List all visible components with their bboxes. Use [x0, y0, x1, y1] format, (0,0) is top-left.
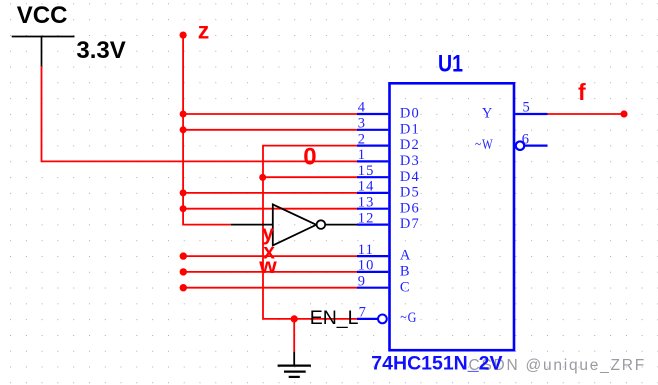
svg-text:f: f [578, 79, 586, 105]
svg-text:EN_L: EN_L [310, 307, 359, 329]
wire VCC to pin1 D3 [42, 66, 358, 161]
wire D4 from net 0 [263, 176, 357, 178]
svg-text:U1: U1 [438, 51, 463, 78]
endpoint dot wire A [180, 252, 187, 259]
svg-text:D3: D3 [400, 153, 420, 169]
junction z-D1 [180, 126, 187, 133]
node z endpoint dot [180, 31, 187, 38]
wire C [183, 287, 357, 289]
pin 10 stub B [357, 271, 388, 273]
pin 9 stub C [357, 287, 388, 289]
junction z-D0 [180, 111, 187, 118]
svg-text:~W: ~W [475, 137, 494, 153]
wire B [183, 271, 357, 273]
pin 4 stub D0 [357, 113, 388, 115]
svg-text:12: 12 [358, 210, 375, 226]
svg-text:D7: D7 [400, 216, 420, 232]
svg-text:11: 11 [358, 242, 374, 258]
wire inverter input (black) [231, 224, 273, 226]
pin 1 stub D3 [357, 160, 388, 162]
svg-text:15: 15 [358, 163, 375, 179]
wire net z vertical [183, 35, 231, 225]
pin 14 stub D5 [357, 192, 388, 194]
pin 6 stub ~W [524, 145, 548, 147]
wire inverter output to pin12 D7 (black) [325, 224, 357, 226]
svg-text:0: 0 [303, 143, 316, 170]
endpoint dot wire C [180, 284, 187, 291]
svg-text:D6: D6 [400, 200, 420, 216]
pin 5 stub Y [515, 113, 547, 115]
pin 12 stub D7 [357, 224, 388, 226]
svg-text:~G: ~G [400, 310, 417, 326]
pin 2 stub D2 [357, 145, 388, 147]
junction EN_L-ground [291, 315, 298, 322]
ground [278, 352, 311, 377]
svg-text:9: 9 [358, 273, 366, 289]
svg-text:7: 7 [359, 305, 367, 321]
svg-text:D5: D5 [400, 185, 420, 201]
wire A [183, 255, 357, 257]
pin 3 stub D1 [357, 129, 388, 131]
svg-text:2: 2 [358, 131, 366, 147]
svg-text:4: 4 [358, 100, 366, 116]
svg-text:1: 1 [358, 147, 366, 163]
svg-text:VCC: VCC [17, 2, 68, 29]
svg-text:3: 3 [358, 116, 366, 132]
junction 0-D4 [259, 174, 266, 181]
svg-text:D1: D1 [400, 121, 420, 137]
wire D5 [183, 192, 357, 194]
svg-text:Y: Y [482, 106, 494, 122]
svg-text:w: w [258, 255, 277, 278]
svg-text:B: B [400, 264, 411, 280]
svg-text:3.3V: 3.3V [76, 37, 125, 64]
svg-text:13: 13 [358, 194, 375, 210]
wire to ground (red part) [293, 319, 295, 352]
pin 7 stub ~G [357, 318, 378, 320]
wire net 0: pin2 D2, vertical drop, EN_L run to pin7 [263, 146, 357, 319]
pin 11 stub A [357, 255, 388, 257]
power symbol VCC [12, 2, 75, 67]
multiplexer U1 body (74HC151N) [390, 83, 515, 350]
svg-text:14: 14 [358, 179, 375, 195]
pin 6 bubble ~W [516, 141, 525, 150]
pin 7 bubble [378, 315, 387, 324]
wire D1 [183, 129, 357, 131]
endpoint dot f [620, 110, 627, 117]
svg-text:D0: D0 [400, 106, 420, 122]
wire D6 [183, 208, 357, 210]
wire f output [548, 113, 625, 115]
svg-text:D4: D4 [400, 169, 420, 185]
svg-text:C: C [400, 279, 411, 295]
junction z-D6 [180, 205, 187, 212]
svg-text:z: z [198, 17, 210, 43]
pin 15 stub D4 [357, 176, 388, 178]
pin 13 stub D6 [357, 208, 388, 210]
inverter NOT gate [273, 204, 325, 245]
svg-text:10: 10 [358, 258, 375, 274]
svg-text:D2: D2 [400, 137, 420, 153]
svg-text:A: A [400, 248, 412, 264]
wire D0 [183, 113, 357, 115]
svg-text:74HC151N_2V: 74HC151N_2V [371, 352, 502, 374]
endpoint dot wire B [180, 268, 187, 275]
svg-text:5: 5 [523, 100, 531, 116]
junction z-D5 [180, 189, 187, 196]
svg-text:6: 6 [522, 131, 530, 147]
